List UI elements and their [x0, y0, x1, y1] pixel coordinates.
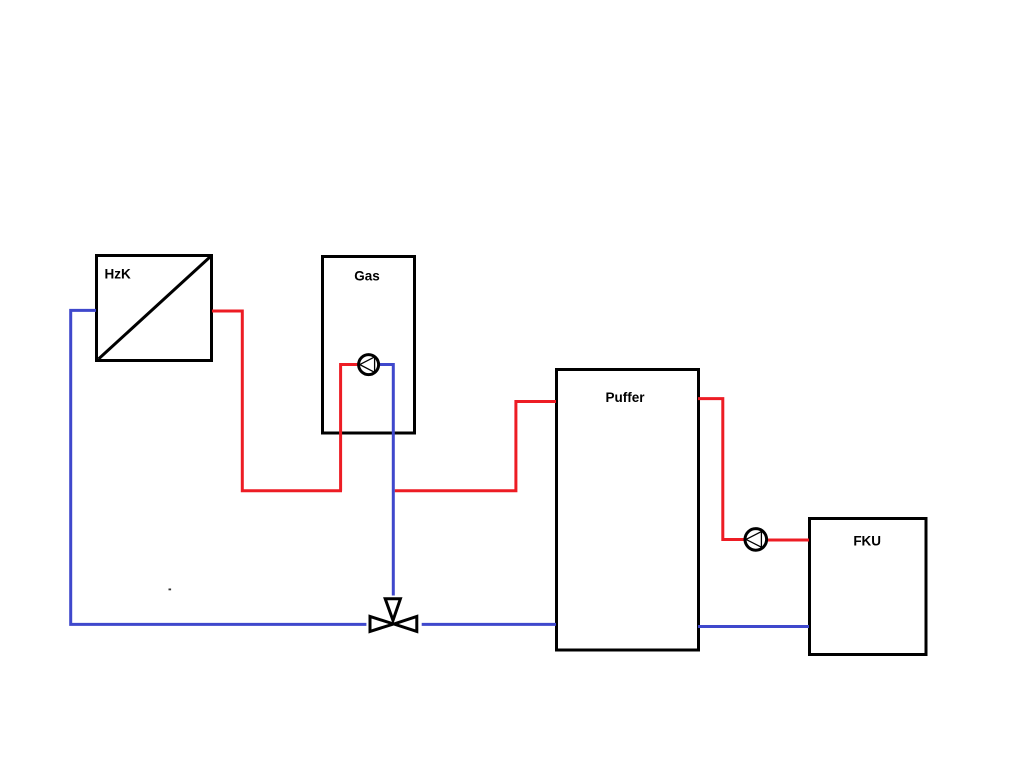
valve right triangle	[394, 616, 417, 631]
svg-text:FKU: FKU	[853, 534, 881, 549]
three-way mixing valve	[370, 599, 417, 632]
buffer tank Puffer	[557, 370, 699, 651]
wire: blue valve to Puffer bottom left	[422, 623, 556, 626]
wire: red Gas pump loop	[341, 365, 369, 491]
wire: red Puffer right to pump P2 to FKU	[698, 399, 756, 540]
wire: blue Gas pump down to valve top	[369, 365, 394, 596]
consumer FKU	[810, 519, 927, 655]
valve top triangle	[385, 599, 400, 621]
pump P1 (Gas circuit)	[359, 355, 379, 375]
boiler Gas	[323, 257, 415, 434]
wire: red supply HzK to junction	[212, 311, 342, 491]
wire: red pump P2 to FKU	[756, 539, 809, 542]
stray speck	[169, 589, 172, 591]
svg-text:HzK: HzK	[105, 266, 131, 281]
valve left triangle	[370, 616, 394, 631]
wire: blue return HzK left down to valve	[71, 310, 367, 624]
svg-text:Gas: Gas	[354, 268, 380, 283]
svg-text:Puffer: Puffer	[605, 390, 645, 405]
pump P2 (FKU circuit)	[745, 529, 767, 551]
wire: red junction to Puffer top left	[395, 402, 556, 491]
heat exchanger HzK	[97, 256, 212, 361]
wire: blue Puffer right to FKU	[698, 625, 809, 628]
